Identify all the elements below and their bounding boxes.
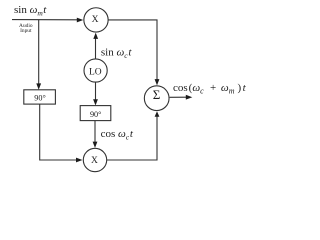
multiplier X1 top mixer	[84, 8, 108, 32]
svg-text:90°: 90°	[34, 93, 45, 102]
wire input vertical drop to left 90 box	[38, 20, 40, 85]
phase shifter middle 90 box	[80, 106, 111, 121]
wire middle box down to bottom mixer	[94, 121, 96, 143]
wire summer output	[170, 96, 187, 98]
svg-text:X: X	[91, 156, 98, 166]
multiplier X2 bottom mixer	[83, 148, 106, 171]
phase shifter left 90 box	[24, 90, 56, 104]
svg-text:LO: LO	[89, 67, 102, 77]
svg-text:Σ: Σ	[153, 87, 161, 102]
svg-text:X: X	[92, 15, 99, 25]
wire left box down then right to bottom mixer	[40, 104, 77, 160]
svg-text:Input: Input	[20, 28, 32, 34]
svg-text:sin ωct: sin ωct	[101, 47, 132, 61]
wire bottom mixer right then up to summer	[107, 117, 157, 161]
wire top mixer right then down to summer	[108, 20, 157, 80]
summer sigma	[144, 86, 169, 111]
wire audio input horizontal	[12, 19, 78, 21]
wire LO down to middle 90 box	[95, 82, 97, 100]
wire LO up to top mixer	[95, 38, 97, 59]
oscillator LO	[84, 59, 107, 82]
svg-text:90°: 90°	[90, 110, 101, 119]
svg-text:cos ωct: cos ωct	[101, 128, 134, 142]
